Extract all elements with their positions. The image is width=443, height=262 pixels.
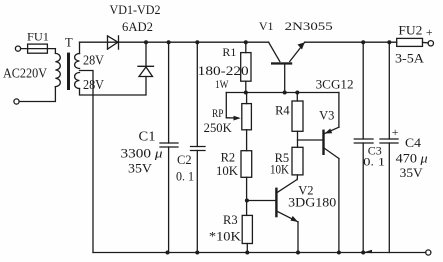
wire top rail left segment [80,41,269,43]
wire primary top [54,49,56,54]
junction node rail-VD2 [144,40,148,44]
transistor V1 [269,42,305,92]
capacitor C2 [191,42,206,252]
fuse FU2 [397,38,434,46]
svg-text:C1: C1 [139,129,156,144]
svg-text:V3: V3 [319,109,334,123]
junction node rail-C1 [167,40,171,44]
junction node rail-C3 [361,40,365,44]
junction node bus-R1 [244,91,248,95]
resistor R2 [241,151,252,216]
RP wiper arrow [226,116,240,121]
svg-text:*10K: *10K [209,230,241,244]
svg-text:T: T [65,36,73,50]
capacitor C3 [354,42,373,252]
wire base bus [226,92,339,94]
transistor V3 [322,93,339,253]
svg-text:VD1-VD2: VD1-VD2 [110,2,161,17]
svg-text:3-5A: 3-5A [395,52,424,66]
svg-text:V1: V1 [259,19,274,33]
capacitor C4 [380,42,398,252]
svg-text:R4: R4 [275,104,290,118]
terminal bottom-left [14,99,19,104]
svg-text:6AD2: 6AD2 [122,19,153,34]
svg-text:FU2: FU2 [398,24,422,38]
transistor V2 [247,180,298,253]
svg-text:0. 1: 0. 1 [176,170,194,184]
resistor R5 [292,147,303,179]
ground rail arrow [364,250,372,253]
svg-text:3CG12: 3CG12 [316,78,354,92]
transformer T core [67,53,70,90]
svg-text:R1: R1 [222,45,236,59]
svg-text:2N3055: 2N3055 [285,19,333,33]
wire top rail right segment [305,41,397,43]
svg-text:10K: 10K [270,163,289,177]
svg-text:+: + [426,25,433,39]
svg-text:3300 μ: 3300 μ [121,146,164,161]
svg-text:35V: 35V [400,166,423,180]
svg-text:R3: R3 [223,213,238,227]
wire center tap [80,71,94,253]
wire secondary bottom to VD2 [80,77,147,96]
svg-text:35V: 35V [128,161,153,176]
svg-text:470 μ: 470 μ [396,152,428,166]
svg-text:+: + [392,125,399,139]
svg-text:10K: 10K [216,164,238,178]
svg-text:C4: C4 [405,136,422,150]
resistor R4 [292,93,303,148]
junction node gnd-R3 [245,251,249,255]
transformer T primary winding [55,53,60,86]
junction node bus-R4 [295,91,299,95]
svg-text:C2: C2 [177,153,192,167]
wire secondary top to rail [79,42,81,53]
junction node rail-C4 [387,40,391,44]
junction node gnd-C2 [195,251,199,255]
transformer T secondary winding lower [75,73,80,89]
svg-text:1W: 1W [215,77,229,91]
junction node rail-C2 [195,40,199,44]
fuse FU1 [15,44,55,53]
svg-text:3DG180: 3DG180 [288,196,336,210]
junction node gnd-C1 [166,251,170,255]
junction node V2base-R2R3 [245,199,249,203]
wire primary bottom [19,87,55,102]
svg-text:28V: 28V [83,54,104,69]
junction node gnd-V3collector [337,251,341,255]
svg-text:RP: RP [212,106,224,120]
svg-text:FU1: FU1 [27,30,49,44]
junction node gnd-C3 [361,251,365,255]
diode VD1 [108,36,119,49]
wire ground rail [93,252,426,254]
junction node bus-V1base [283,91,287,95]
terminal output negative [426,250,431,255]
resistor R3 [242,215,252,252]
svg-text:R2: R2 [221,151,236,165]
svg-text:0. 1: 0. 1 [363,155,385,169]
transformer T secondary winding upper [75,54,80,69]
junction node rail-R1 [244,40,248,44]
wire V3 base [298,139,323,141]
wire RP wiper loop [225,93,227,118]
svg-text:AC220V: AC220V [3,67,47,82]
svg-text:180-220: 180-220 [198,63,249,78]
junction node gnd-V2emitter [296,251,300,255]
capacitor C1 [160,42,178,252]
resistor R1 [241,42,251,92]
potentiometer RP [242,93,252,151]
svg-text:250K: 250K [204,121,232,135]
diode VD2 [138,42,154,76]
